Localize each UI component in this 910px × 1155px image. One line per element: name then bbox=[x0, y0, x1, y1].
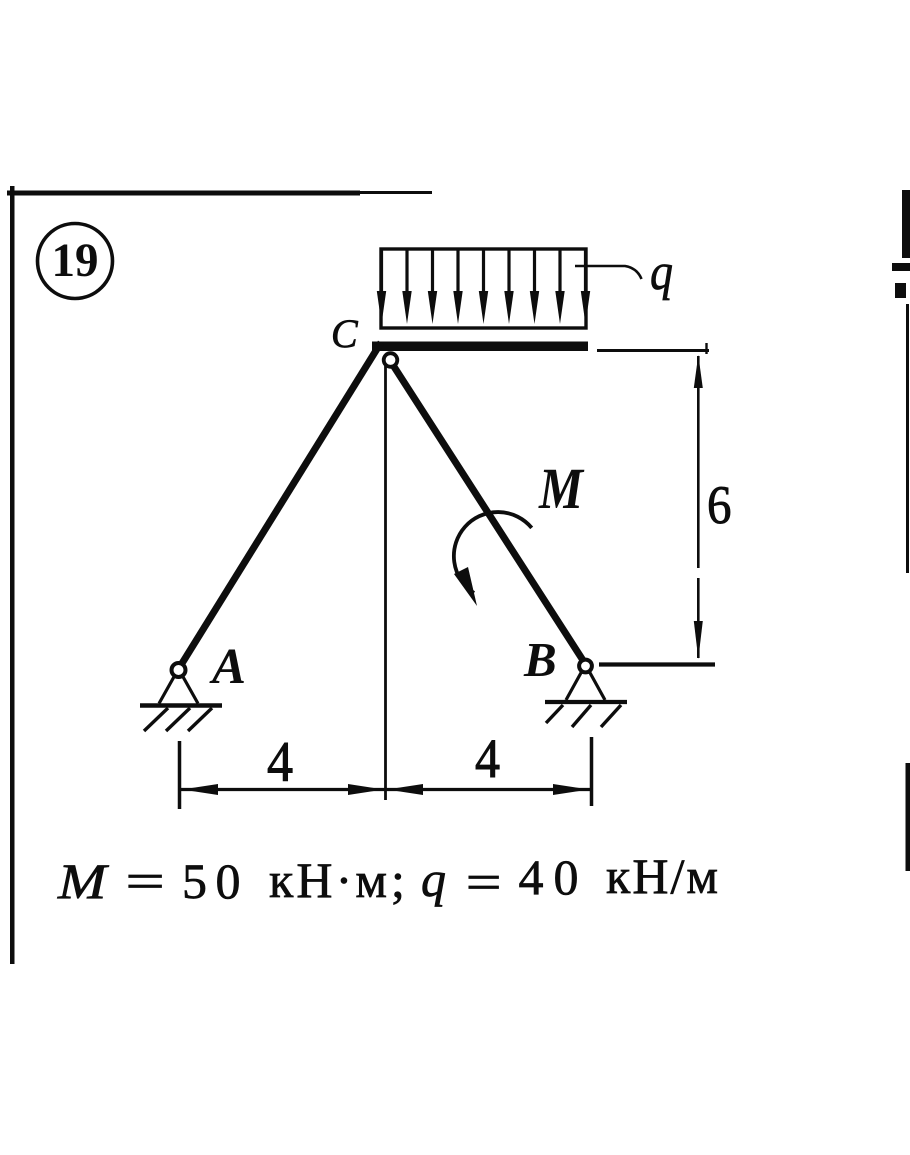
member AC bbox=[179, 343, 382, 670]
dimension 4-4 line bbox=[181, 788, 590, 791]
load arrow 2 bbox=[402, 250, 411, 324]
support B hatching bbox=[546, 705, 621, 727]
frame border right fragment 1 bbox=[892, 263, 910, 271]
figure number circle 19 bbox=[38, 224, 113, 299]
dimension 6 top extension line bbox=[597, 349, 709, 352]
frame border top bbox=[7, 191, 360, 196]
support B triangle bbox=[566, 671, 605, 700]
dimension arrow center-left bbox=[348, 784, 384, 795]
load arrow 9 bbox=[581, 250, 590, 324]
frame border right bar bbox=[902, 190, 910, 258]
member BC bbox=[391, 362, 586, 665]
beam CD top member bbox=[372, 342, 588, 352]
svg-text:4: 4 bbox=[267, 731, 293, 794]
support A ground line bbox=[140, 703, 222, 708]
dimension arrow center-right bbox=[387, 784, 423, 795]
frame border left bbox=[10, 186, 15, 964]
load arrow 1 bbox=[377, 250, 386, 324]
distributed load q outline bbox=[381, 249, 586, 328]
svg-text:M: M bbox=[57, 854, 109, 909]
load arrow 4 bbox=[453, 250, 462, 324]
dimension 4-4 right tick bbox=[590, 737, 594, 806]
support B ground line bbox=[545, 700, 627, 704]
dimension 6 arrow up bbox=[694, 355, 703, 388]
svg-text:B: B bbox=[523, 632, 557, 687]
dimension arrow right-outer bbox=[553, 784, 589, 795]
load arrow 5 bbox=[479, 250, 488, 324]
load arrow 8 bbox=[555, 250, 564, 324]
svg-text:C: C bbox=[331, 311, 359, 356]
dimension arrow left-outer bbox=[182, 784, 218, 795]
svg-text:4: 4 bbox=[475, 728, 500, 789]
frame border right lower segment bbox=[906, 763, 910, 871]
svg-text:6: 6 bbox=[707, 475, 732, 535]
svg-text:A: A bbox=[209, 639, 246, 695]
support A triangle bbox=[159, 675, 198, 704]
load arrow 3 bbox=[428, 250, 437, 324]
svg-text:M: M bbox=[538, 456, 585, 521]
svg-text:=: = bbox=[466, 855, 502, 910]
support A pin bbox=[172, 663, 186, 677]
center vertical line from C bbox=[384, 362, 387, 800]
load arrow 7 bbox=[530, 250, 539, 324]
frame border right fragment 2 bbox=[895, 283, 906, 298]
support A hatching bbox=[144, 708, 212, 731]
dimension 6 vertical line bbox=[697, 356, 700, 568]
dimension 6 arrow down bbox=[694, 621, 703, 659]
svg-text:q: q bbox=[650, 244, 673, 301]
support B pin bbox=[579, 660, 592, 673]
moment M arc arrow bbox=[454, 512, 532, 593]
dimension 6 bottom extension line bbox=[599, 662, 715, 666]
leader line to q label bbox=[575, 266, 642, 279]
dimension 4-4 left tick bbox=[178, 741, 182, 809]
load arrow 6 bbox=[504, 250, 513, 324]
svg-text:=: = bbox=[125, 854, 164, 909]
svg-text:19: 19 bbox=[52, 234, 99, 287]
frame border right thin line bbox=[906, 304, 909, 573]
pin at C bbox=[384, 353, 398, 367]
